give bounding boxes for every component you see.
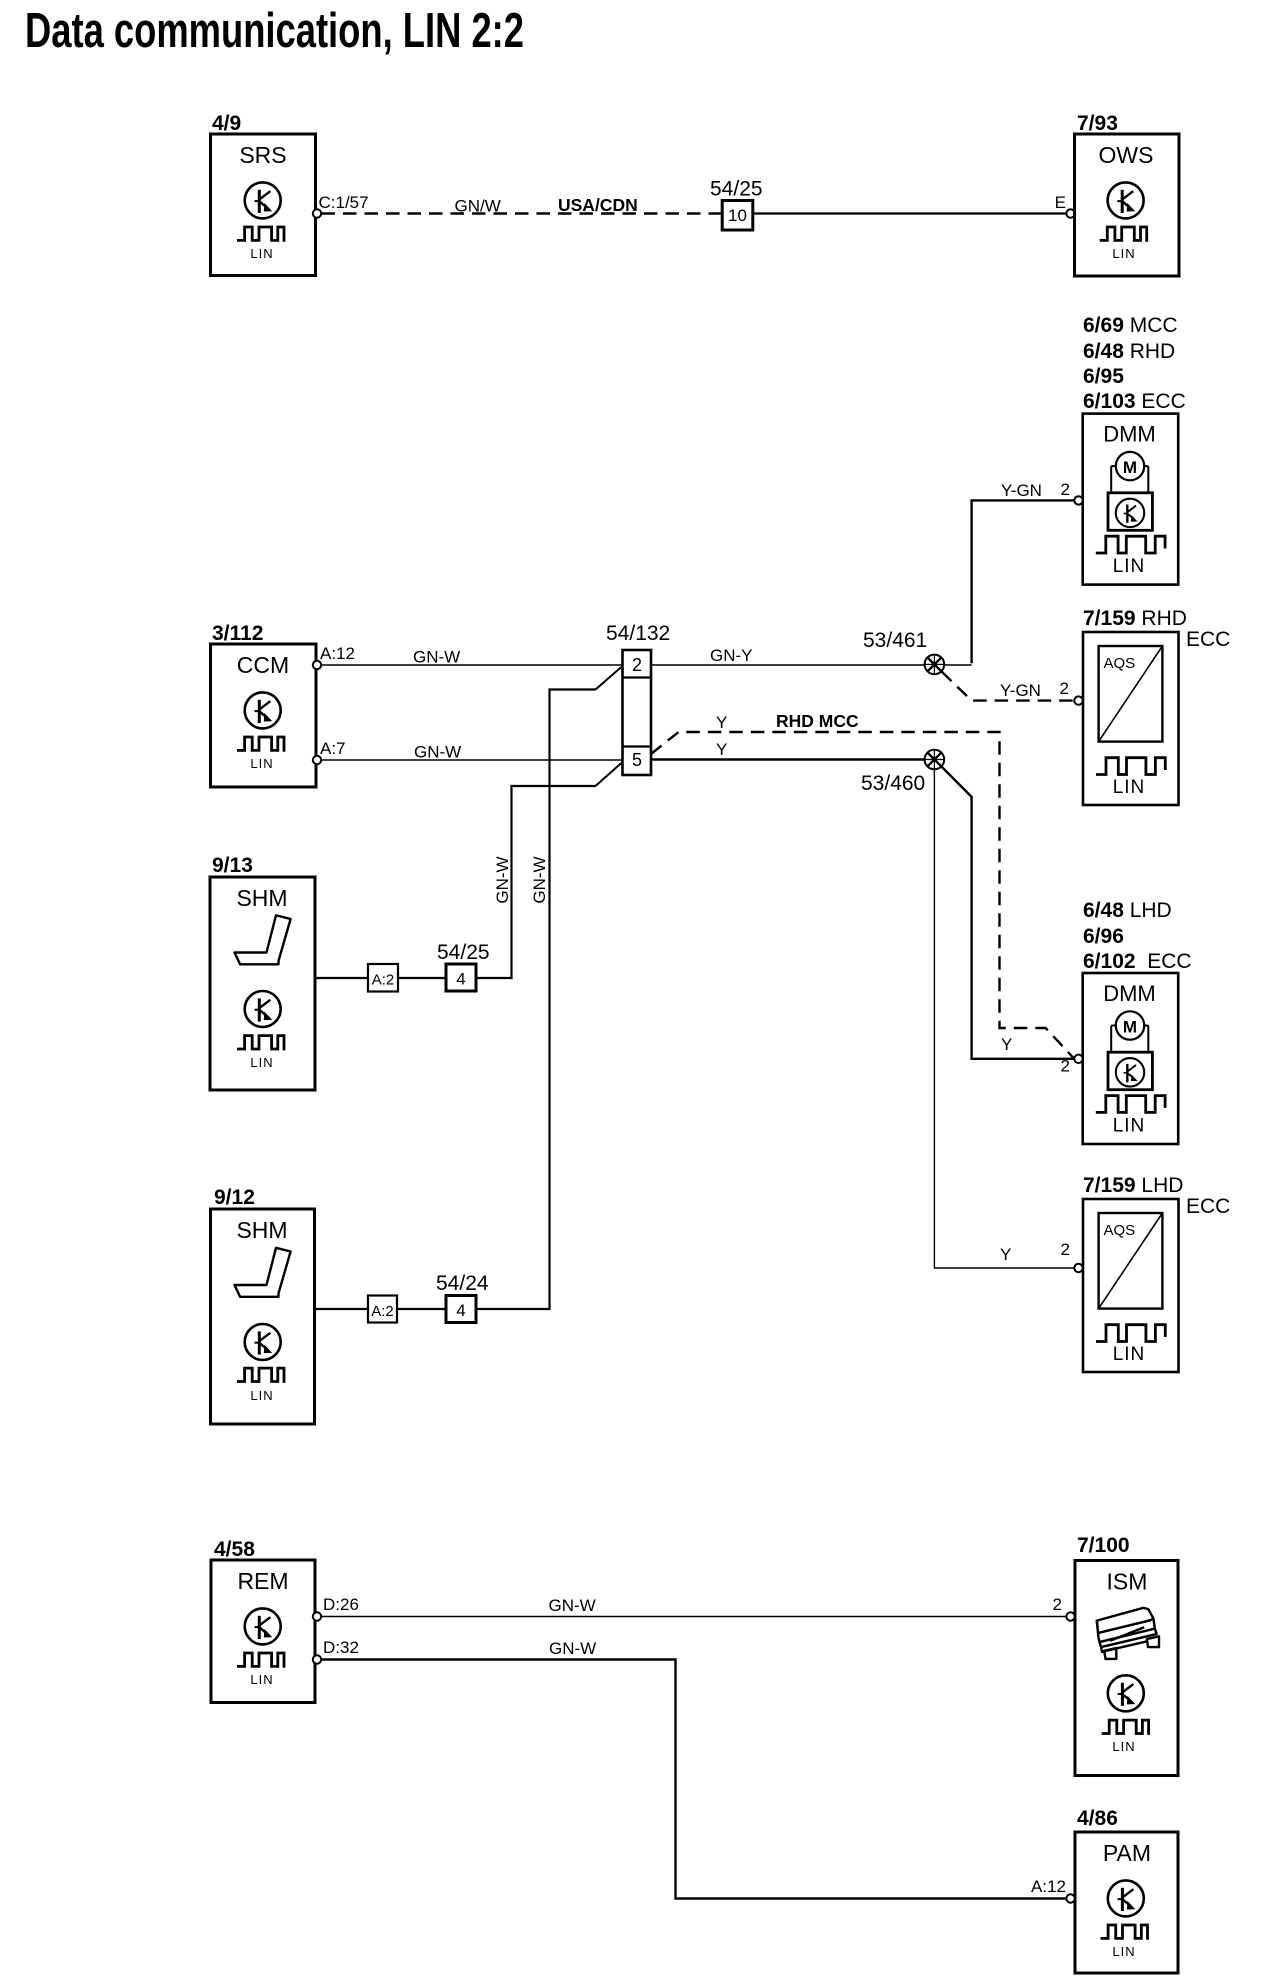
svg-text:54/24: 54/24 <box>436 1272 489 1295</box>
svg-text:7/93: 7/93 <box>1077 112 1118 135</box>
wire Y-GN dashed to ECC RHD <box>942 672 1075 701</box>
svg-text:4: 4 <box>456 970 465 989</box>
svg-text:D:32: D:32 <box>323 1638 359 1657</box>
wire SHM 9/12 to A:2 <box>315 1308 369 1310</box>
svg-text:4/9: 4/9 <box>212 112 241 135</box>
svg-text:2: 2 <box>632 655 642 675</box>
pin5 left diagonal <box>596 762 623 786</box>
wire thin down from 53/460 to ECC LHD <box>934 769 1074 1268</box>
svg-text:AQS: AQS <box>1104 655 1136 672</box>
svg-text:Y: Y <box>716 740 727 759</box>
wire GN-Y from pin2 <box>651 664 972 666</box>
ECU ECC LHD (AQS) <box>1083 1199 1179 1372</box>
svg-text:LIN: LIN <box>1112 1739 1135 1754</box>
wire GN/W USA/CDN dashed <box>322 212 723 214</box>
svg-text:LIN: LIN <box>1112 246 1135 261</box>
svg-text:A:2: A:2 <box>372 972 395 989</box>
svg-text:GN-W: GN-W <box>414 743 461 762</box>
svg-text:RHD MCC: RHD MCC <box>776 711 859 731</box>
wire A:2 to 54/25 <box>398 977 446 979</box>
svg-text:SHM: SHM <box>236 1217 287 1243</box>
ECU 3/112 CCM <box>211 622 317 787</box>
wire GN-W D32 to PAM <box>322 1660 1067 1899</box>
svg-text:6/48 RHD: 6/48 RHD <box>1083 340 1175 363</box>
svg-text:LIN: LIN <box>1112 1944 1135 1959</box>
svg-text:REM: REM <box>237 1568 288 1594</box>
svg-text:GN-W: GN-W <box>493 856 512 903</box>
svg-text:LIN: LIN <box>250 1672 273 1687</box>
wire A:2 to 54/24 <box>397 1308 446 1310</box>
svg-text:6/48 LHD: 6/48 LHD <box>1083 899 1172 922</box>
svg-text:54/132: 54/132 <box>606 622 670 645</box>
pin2 left diagonal <box>596 666 623 690</box>
ECU 7/93 OWS <box>1075 112 1180 276</box>
svg-text:M: M <box>1123 1017 1137 1036</box>
svg-text:SRS: SRS <box>239 142 286 168</box>
svg-text:LIN: LIN <box>250 246 273 261</box>
svg-text:2: 2 <box>1060 679 1069 698</box>
svg-text:LIN: LIN <box>1113 1115 1146 1136</box>
svg-text:A:12: A:12 <box>1031 1877 1066 1896</box>
svg-text:ISM: ISM <box>1107 1569 1148 1595</box>
svg-text:LIN: LIN <box>1113 1344 1146 1365</box>
svg-text:DMM: DMM <box>1103 981 1156 1006</box>
wire to OWS <box>753 212 1066 214</box>
svg-text:9/13: 9/13 <box>212 854 253 877</box>
svg-text:USA/CDN: USA/CDN <box>558 195 638 215</box>
ECU DMM RHD <box>1083 414 1179 585</box>
svg-text:7/159 LHD: 7/159 LHD <box>1083 1174 1183 1197</box>
wire Y solid from pin5 <box>651 758 934 760</box>
svg-text:7/159 RHD: 7/159 RHD <box>1083 607 1187 630</box>
svg-text:LIN: LIN <box>250 756 273 771</box>
connector A:2 (9/13) <box>368 964 398 992</box>
svg-text:M: M <box>1123 458 1137 477</box>
svg-text:Data communication, LIN 2:2: Data communication, LIN 2:2 <box>25 4 524 58</box>
svg-text:2: 2 <box>1053 1595 1062 1614</box>
svg-text:3/112: 3/112 <box>212 622 263 645</box>
wire GN-W A7 <box>322 759 623 761</box>
svg-text:Y: Y <box>716 713 727 732</box>
svg-text:5: 5 <box>632 750 642 770</box>
svg-text:Y-GN: Y-GN <box>1001 481 1042 500</box>
svg-text:DMM: DMM <box>1103 422 1156 447</box>
svg-text:LIN: LIN <box>1113 556 1146 577</box>
wire branch 9/13 to pin5 <box>477 786 596 978</box>
ISM module icon <box>1097 1608 1159 1659</box>
svg-text:GN-W: GN-W <box>549 1596 596 1615</box>
svg-text:7/100: 7/100 <box>1077 1534 1130 1557</box>
svg-text:10: 10 <box>728 206 747 225</box>
svg-text:4/86: 4/86 <box>1077 1807 1118 1830</box>
svg-text:6/95: 6/95 <box>1083 365 1124 388</box>
svg-text:Y: Y <box>1000 1245 1011 1264</box>
svg-text:GN-W: GN-W <box>413 648 460 667</box>
svg-text:SHM: SHM <box>236 885 287 911</box>
svg-text:6/103 ECC: 6/103 ECC <box>1083 390 1186 413</box>
svg-text:6/102 ECC: 6/102 ECC <box>1083 950 1192 973</box>
svg-text:6/96: 6/96 <box>1083 925 1124 948</box>
wire GN-W D26 to ISM <box>322 1616 1067 1618</box>
svg-text:9/12: 9/12 <box>214 1186 255 1209</box>
svg-text:54/25: 54/25 <box>437 941 490 964</box>
svg-text:ECC: ECC <box>1186 1195 1230 1218</box>
svg-text:2: 2 <box>1061 480 1070 499</box>
svg-text:4/58: 4/58 <box>214 1538 255 1561</box>
svg-text:Y: Y <box>1001 1035 1012 1054</box>
svg-text:LIN: LIN <box>1113 777 1146 798</box>
svg-text:GN-W: GN-W <box>530 856 549 903</box>
svg-text:53/460: 53/460 <box>861 772 925 795</box>
svg-text:E: E <box>1055 193 1066 212</box>
svg-text:AQS: AQS <box>1104 1222 1136 1239</box>
wire branch 9/12 to pin2 <box>477 690 596 1310</box>
svg-text:54/25: 54/25 <box>710 178 763 201</box>
svg-text:A:12: A:12 <box>320 644 355 663</box>
svg-text:GN-Y: GN-Y <box>710 646 753 665</box>
svg-text:C:1/57: C:1/57 <box>319 193 369 212</box>
svg-text:ECC: ECC <box>1186 628 1230 651</box>
svg-text:Y-GN: Y-GN <box>1000 681 1041 700</box>
svg-text:GN/W: GN/W <box>455 197 501 216</box>
ECU DMM LHD <box>1083 973 1179 1144</box>
svg-text:PAM: PAM <box>1103 1840 1151 1866</box>
ECU 4/9 SRS <box>211 112 316 276</box>
svg-text:53/461: 53/461 <box>863 629 927 652</box>
svg-text:6/69 MCC: 6/69 MCC <box>1083 314 1178 337</box>
wire Y dashed RHD MCC <box>651 732 1074 1059</box>
wire Y-GN to DMM RHD <box>972 500 1075 663</box>
svg-text:LIN: LIN <box>250 1388 273 1403</box>
wire SHM 9/13 to A:2 <box>315 977 368 979</box>
svg-text:A:7: A:7 <box>320 739 346 758</box>
svg-text:A:2: A:2 <box>371 1303 394 1320</box>
svg-text:2: 2 <box>1061 1240 1070 1259</box>
svg-text:OWS: OWS <box>1099 142 1154 168</box>
wire GN-W A12 <box>322 664 623 666</box>
svg-text:4: 4 <box>456 1301 465 1320</box>
svg-text:LIN: LIN <box>250 1055 273 1070</box>
svg-text:CCM: CCM <box>237 652 289 678</box>
wire thick from 53/460 to DMM LHD <box>942 767 1075 1059</box>
connector A:2 (9/12) <box>368 1296 397 1323</box>
ECU ECC RHD (AQS) <box>1083 632 1179 805</box>
svg-text:D:26: D:26 <box>323 1595 359 1614</box>
svg-text:GN-W: GN-W <box>549 1639 596 1658</box>
svg-text:2: 2 <box>1061 1057 1070 1076</box>
